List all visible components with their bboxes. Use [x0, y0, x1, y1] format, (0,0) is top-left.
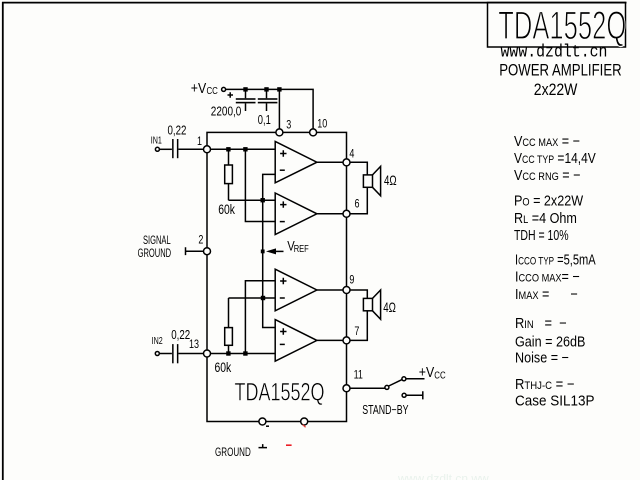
label 4 ohm speaker2: [383, 301, 396, 316]
svg-text:2: 2: [198, 233, 203, 247]
faint watermark bottom: [397, 472, 489, 480]
Vref arrow: [266, 248, 284, 254]
wire cap to pin1: [178, 148, 203, 150]
svg-text:11: 11: [354, 369, 363, 383]
signal ground terminal: [186, 247, 204, 255]
op-amp A2: [275, 193, 317, 235]
wire op3 inverting input: [229, 297, 276, 299]
pin 4 label: [349, 148, 354, 162]
svg-text:Noise = −: Noise = −: [515, 348, 569, 365]
node feedback 2 junction: [261, 296, 265, 300]
node cap1 junction: [243, 87, 247, 91]
value label 0,22 input1: [168, 124, 187, 137]
wire IN1 to cap: [159, 148, 172, 150]
spec line Imax: [515, 285, 578, 302]
label GROUND bottom: [215, 446, 251, 459]
IC U1 TDA1552Q box: [207, 132, 347, 421]
pin 1 circle: [204, 146, 211, 153]
wire cap to pin13: [178, 353, 203, 355]
capacitor C3 0,22 input 1: [172, 139, 178, 158]
heading 2x22W: [534, 81, 578, 99]
node op2 inv branch junction: [243, 147, 247, 151]
svg-text:www.dzdlt.cn: www.dzdlt.cn: [501, 41, 608, 62]
pin 4 circle: [343, 159, 350, 166]
watermark www.dzdlt.cn: [501, 41, 608, 62]
IC label TDA1552Q: [235, 377, 325, 406]
svg-text:CC: CC: [207, 85, 219, 96]
wire op3 output to pin9 to speaker: [317, 290, 367, 298]
title box: [488, 3, 626, 48]
wire op1 inverting input: [263, 174, 276, 327]
pin 7 circle: [343, 337, 350, 344]
svg-text:0,22: 0,22: [171, 329, 190, 342]
svg-text:IN2: IN2: [152, 335, 163, 347]
svg-text:+V: +V: [191, 80, 206, 96]
svg-text:10: 10: [317, 117, 327, 131]
node feedback 1 junction: [261, 198, 265, 202]
svg-text:POWER AMPLIFIER: POWER AMPLIFIER: [499, 61, 622, 80]
svg-text:Case SIL13P: Case SIL13P: [515, 393, 594, 410]
pin 13 circle: [204, 350, 211, 357]
svg-text:CC: CC: [434, 370, 446, 381]
node op3 branch junction: [243, 351, 247, 355]
spec line Vcc typ: [514, 150, 596, 167]
svg-text:TDA1552Q: TDA1552Q: [235, 377, 325, 406]
spec line TDH: [514, 226, 569, 243]
spec line Noise: [515, 348, 569, 365]
svg-text:7: 7: [354, 325, 359, 339]
pin 2 circle: [204, 248, 211, 255]
+Vcc terminal: [222, 87, 226, 91]
IN1 terminal: [155, 147, 159, 151]
wire pin3 branch: [278, 89, 280, 129]
title text TDA1552Q: [498, 4, 626, 48]
ground symbol: [259, 444, 268, 448]
op-amp A4: [275, 320, 317, 362]
pin 3 label: [286, 118, 291, 132]
wire pin13 to op-amp A4 -: [207, 353, 275, 355]
spec line Icco max: [515, 268, 580, 285]
speaker LS1: [363, 166, 380, 195]
pin 10 label: [317, 117, 327, 131]
heading POWER AMPLIFIER: [499, 61, 622, 80]
spec line RL: [514, 209, 577, 226]
pin 9 label: [349, 273, 354, 287]
pin 7 label: [354, 325, 359, 339]
pin 9 circle: [343, 287, 350, 294]
spec line Vcc rng: [514, 166, 581, 183]
capacitor C1 2200,0: [236, 89, 256, 111]
node pin3 junction: [277, 87, 281, 91]
resistor R1 60k: [225, 149, 233, 200]
svg-text:6: 6: [355, 198, 360, 212]
spec line Icco typ: [515, 251, 596, 268]
frame top border: [2, 2, 627, 4]
ground pin 8 red mark: [303, 425, 306, 428]
value label 2200,0: [211, 105, 242, 118]
svg-text:REF: REF: [294, 243, 309, 254]
pin 1 label: [197, 135, 202, 149]
speaker LS2: [363, 290, 380, 319]
wire op1 output to pin4 to speaker: [317, 162, 367, 175]
op-amp A1: [275, 141, 317, 182]
spec line Vcc max: [514, 132, 580, 149]
node Vref junction: [261, 250, 265, 254]
svg-text:2200,0: 2200,0: [211, 105, 242, 118]
frame left border: [2, 2, 4, 480]
svg-text:60k: 60k: [218, 202, 236, 218]
switch S1 stand-by: [385, 377, 425, 400]
svg-text:GROUND: GROUND: [138, 247, 172, 260]
node cap2 junction: [264, 87, 268, 91]
spec line Case: [515, 393, 594, 410]
wire IN2 to cap: [159, 353, 172, 355]
svg-text:1: 1: [197, 135, 202, 149]
red dash mark: [286, 444, 292, 446]
svg-text:60k: 60k: [215, 359, 233, 375]
label 60k R2: [215, 359, 233, 375]
capacitor C2 0,1: [258, 89, 278, 111]
label IN1: [151, 134, 162, 146]
spec line Rthj-c: [515, 375, 575, 392]
wire speaker1 bottom to pin6: [317, 187, 367, 214]
ground pin 5 polarity mark: [266, 425, 269, 427]
label IN2: [152, 335, 163, 347]
svg-text:2x22W: 2x22W: [534, 81, 578, 99]
node R1 top junction: [226, 147, 230, 151]
svg-text:4: 4: [349, 148, 354, 162]
label GROUND signal: [138, 247, 172, 260]
wire op3 noninverting branch: [245, 281, 275, 354]
ground pin 8 circle: [301, 418, 308, 425]
svg-text:Gain = 26dB: Gain = 26dB: [515, 332, 585, 349]
node R2 bottom junction: [226, 351, 230, 355]
pin 6 circle: [343, 210, 350, 217]
op-amp A3: [275, 269, 317, 311]
wire pin11 to switch: [350, 387, 385, 389]
resistor R2 60k: [225, 298, 233, 354]
svg-text:SIGNAL: SIGNAL: [143, 235, 171, 248]
pin 11 label: [354, 369, 363, 383]
label +Vcc top: [191, 80, 218, 96]
svg-text:9: 9: [349, 273, 354, 287]
pin 10 circle: [310, 129, 317, 136]
svg-text:STAND−BY: STAND−BY: [362, 403, 409, 417]
label STAND-BY: [362, 403, 409, 417]
label +Vcc switch: [419, 364, 446, 381]
wire feedback node 1: [229, 199, 276, 201]
svg-text:4Ω: 4Ω: [383, 301, 396, 316]
wire Vcc rail: [226, 89, 314, 128]
label Vref: [287, 238, 309, 254]
svg-text:TDH = 10%: TDH = 10%: [514, 226, 569, 243]
capacitor C4 0,22 input 2: [172, 344, 178, 363]
spec line Gain: [515, 332, 585, 349]
label 4 ohm speaker1: [384, 174, 397, 189]
pin 3 circle: [276, 129, 283, 136]
spec line Po: [514, 191, 584, 208]
pin 13 label: [189, 338, 199, 352]
value label 0,22 input2: [171, 329, 190, 342]
ground pin 5 circle: [259, 418, 266, 425]
svg-text:3: 3: [286, 118, 291, 132]
wire speaker2 bottom to pin7: [317, 311, 367, 341]
pin 11 circle: [343, 385, 350, 392]
svg-text:13: 13: [189, 338, 199, 352]
pin 6 label: [355, 198, 360, 212]
svg-text:GROUND: GROUND: [215, 446, 251, 459]
svg-text:IN1: IN1: [151, 134, 162, 146]
polarity plus C1: [228, 92, 234, 98]
IN2 terminal: [155, 352, 159, 356]
wire op2 inverting branch: [245, 149, 275, 221]
label SIGNAL: [143, 235, 171, 248]
svg-text:0,22: 0,22: [168, 124, 187, 137]
spec line Rin: [515, 314, 567, 331]
svg-text:+V: +V: [419, 364, 434, 380]
svg-text:4Ω: 4Ω: [384, 174, 397, 189]
svg-text:www.dzdlt.cn ww: www.dzdlt.cn ww: [397, 472, 489, 480]
svg-text:RIN = −: RIN = −: [515, 314, 567, 331]
svg-text:0,1: 0,1: [258, 114, 271, 128]
wire pin1 to op-amp A1 +: [207, 148, 275, 150]
value label 0,1: [258, 114, 271, 128]
label 60k R1: [218, 202, 236, 218]
pin 2 label: [198, 233, 203, 247]
